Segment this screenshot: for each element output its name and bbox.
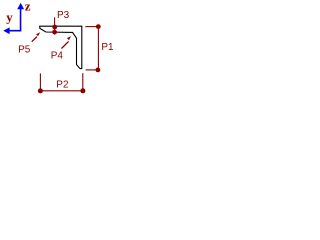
svg-text:P2: P2	[56, 80, 68, 91]
svg-text:P3: P3	[57, 10, 69, 21]
svg-text:P1: P1	[101, 42, 113, 53]
svg-text:y: y	[6, 9, 13, 24]
svg-text:P5: P5	[18, 44, 30, 55]
svg-text:z: z	[25, 0, 31, 14]
svg-text:P4: P4	[51, 51, 63, 62]
